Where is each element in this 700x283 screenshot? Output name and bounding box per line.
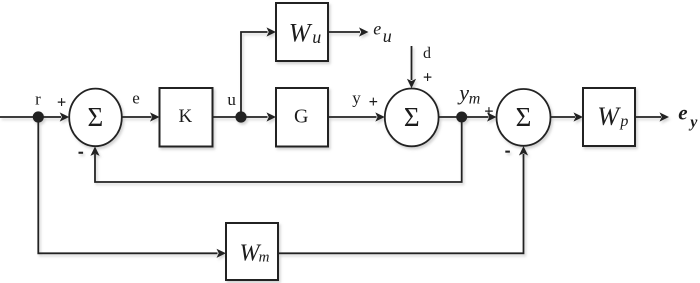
svg-text:Σ: Σ	[516, 102, 532, 132]
svg-text:+: +	[423, 67, 432, 86]
svg-text:e: e	[132, 89, 140, 108]
svg-text:u: u	[227, 90, 236, 109]
svg-text:u: u	[312, 27, 321, 47]
svg-text:y: y	[688, 114, 698, 131]
svg-text:+: +	[369, 92, 378, 111]
svg-text:y: y	[352, 89, 361, 108]
svg-text:u: u	[383, 26, 392, 46]
svg-text:p: p	[619, 113, 628, 130]
svg-text:Σ: Σ	[404, 102, 420, 132]
svg-text:r: r	[35, 90, 41, 109]
svg-text:Σ: Σ	[88, 102, 104, 132]
svg-text:W: W	[289, 19, 313, 48]
svg-text:m: m	[469, 91, 481, 108]
svg-text:+: +	[484, 102, 493, 121]
svg-text:y: y	[457, 80, 469, 105]
svg-text:+: +	[57, 93, 66, 112]
svg-text:m: m	[259, 250, 270, 266]
svg-text:W: W	[597, 102, 621, 131]
svg-text:e: e	[373, 19, 381, 39]
svg-text:G: G	[294, 106, 308, 128]
svg-text:K: K	[179, 106, 193, 127]
svg-text:d: d	[423, 45, 431, 62]
svg-text:e: e	[678, 100, 687, 124]
